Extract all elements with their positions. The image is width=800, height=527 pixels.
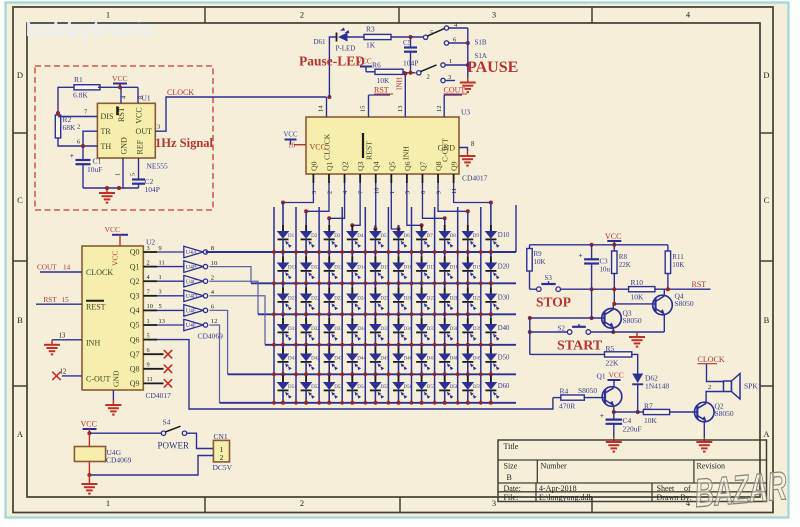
- connector CN1: [213, 440, 229, 462]
- svg-text:+: +: [600, 411, 604, 420]
- svg-text:R7: R7: [644, 402, 653, 411]
- junction LED bottom: [350, 312, 354, 316]
- svg-text:13: 13: [59, 333, 66, 340]
- LED D6: [398, 225, 400, 231]
- svg-text:S3: S3: [545, 274, 553, 282]
- junction LED bottom: [420, 372, 424, 376]
- LED D23: [328, 288, 330, 294]
- svg-text:6: 6: [420, 191, 427, 194]
- IC U3 CD4017 body: [306, 117, 459, 174]
- wire Q1 emitter down: [613, 406, 615, 413]
- svg-text:Title: Title: [504, 442, 519, 451]
- svg-text:S8050: S8050: [675, 299, 694, 308]
- wire LED column: [374, 239, 376, 252]
- ground: [703, 437, 705, 442]
- LED D46: [398, 348, 400, 354]
- svg-text:DC5V: DC5V: [213, 463, 233, 472]
- svg-text:D1: D1: [288, 234, 295, 239]
- wire C-OUT pin 12 of U2: [62, 375, 82, 377]
- LED D15: [374, 257, 376, 263]
- junction LED bottom: [466, 250, 470, 254]
- junction LED bottom: [489, 250, 493, 254]
- LED D34: [351, 318, 353, 324]
- svg-text:D45: D45: [380, 357, 389, 362]
- LED D21: [282, 288, 284, 294]
- svg-text:D38: D38: [450, 327, 459, 332]
- svg-text:GND: GND: [438, 144, 456, 153]
- wire inverter U4E output to LED row 5: [210, 310, 228, 374]
- wire LED column: [351, 302, 353, 314]
- wire LED column: [490, 390, 492, 402]
- svg-text:R3: R3: [366, 25, 375, 34]
- svg-text:D: D: [763, 70, 769, 80]
- wire LED column: [490, 362, 492, 374]
- wire TR pin: [83, 131, 97, 146]
- svg-text:Q6: Q6: [130, 335, 140, 344]
- wire LED column: [467, 239, 469, 252]
- svg-text:10K: 10K: [644, 416, 658, 425]
- svg-text:1: 1: [449, 58, 452, 65]
- dashed highlight box around 1Hz oscillator: [35, 66, 213, 210]
- svg-text:D48: D48: [450, 357, 459, 362]
- svg-text:5: 5: [404, 191, 411, 194]
- svg-text:15: 15: [62, 296, 70, 304]
- ground: [636, 332, 638, 337]
- wire matrix serpentine rail: [457, 207, 459, 403]
- svg-text:RST: RST: [44, 296, 58, 304]
- wire LED column: [305, 390, 307, 402]
- wire LED row bus 4: [265, 344, 516, 346]
- inverter U4D: [184, 290, 204, 302]
- junction fan: [397, 227, 401, 231]
- wire U3 output to matrix column: [352, 183, 360, 226]
- svg-text:U4F: U4F: [186, 323, 197, 329]
- svg-text:3: 3: [492, 10, 496, 20]
- svg-text:D57: D57: [427, 385, 436, 390]
- resistor R9: [529, 245, 531, 249]
- LED D10: [490, 225, 492, 231]
- svg-text:S8050: S8050: [715, 409, 734, 418]
- junction LED bottom: [350, 401, 354, 405]
- wire pin8 VCC: [137, 87, 139, 103]
- svg-text:D14: D14: [357, 266, 366, 271]
- LED D1: [282, 225, 284, 231]
- wire D61 to R3: [348, 36, 365, 38]
- svg-text:RST: RST: [374, 86, 389, 95]
- svg-text:10: 10: [147, 303, 153, 310]
- wire R9 to S3: [529, 271, 531, 289]
- wire LED column: [444, 239, 446, 252]
- wire LED column: [444, 390, 446, 402]
- junction LED bottom: [489, 343, 493, 347]
- svg-text:File:: File:: [504, 493, 519, 502]
- svg-text:1: 1: [106, 498, 110, 508]
- svg-text:VCC: VCC: [81, 420, 97, 429]
- junction INH: [403, 72, 407, 76]
- wire inverter U4A output to LED row 1: [206, 251, 516, 253]
- wire LED column: [305, 332, 307, 344]
- wire matrix serpentine rail: [480, 207, 482, 403]
- svg-text:12: 12: [436, 106, 443, 112]
- svg-text:Sheet: Sheet: [657, 484, 676, 493]
- svg-text:D18: D18: [450, 266, 459, 271]
- svg-text:10K: 10K: [672, 261, 684, 269]
- LED D28: [444, 288, 446, 294]
- junction LED bottom: [304, 401, 308, 405]
- no-connect X: [164, 379, 172, 387]
- wire LED column: [374, 271, 376, 283]
- svg-text:D: D: [17, 70, 23, 80]
- wire LED column: [398, 390, 400, 402]
- junction LED bottom: [304, 281, 308, 285]
- wire LED column: [351, 239, 353, 252]
- svg-text:D50: D50: [498, 355, 510, 362]
- svg-text:Q9: Q9: [450, 161, 459, 171]
- wire LED column: [282, 239, 284, 252]
- junction LED bottom: [443, 281, 447, 285]
- title block frame: [498, 440, 767, 502]
- svg-text:D13: D13: [334, 266, 343, 271]
- wire S1B pin6: [449, 42, 468, 44]
- wire matrix serpentine rail: [434, 207, 436, 403]
- svg-text:Q9: Q9: [130, 379, 140, 388]
- junction LED bottom: [397, 312, 401, 316]
- LED D43: [328, 348, 330, 354]
- resistor R8: [613, 245, 615, 251]
- capacitor C4: [613, 412, 615, 420]
- switch S2 START: [567, 330, 572, 335]
- svg-text:D52: D52: [311, 385, 320, 390]
- wire LED column: [282, 271, 284, 283]
- svg-text:+: +: [578, 251, 582, 260]
- wire R6 to INH net: [403, 71, 405, 73]
- ground: [88, 479, 90, 484]
- LED D42: [305, 348, 307, 354]
- no-connect X: [164, 365, 172, 373]
- wire REST pin 15: [368, 95, 370, 117]
- svg-text:D37: D37: [427, 327, 436, 332]
- capacitor C1: [82, 146, 84, 160]
- wire matrix serpentine rail: [341, 207, 343, 403]
- svg-text:PAUSE: PAUSE: [467, 59, 518, 76]
- wire C2 bottom: [138, 184, 140, 188]
- junction LED bottom: [489, 312, 493, 316]
- svg-text:Q2: Q2: [341, 161, 350, 171]
- IC U2 CD4017 body: [82, 246, 143, 390]
- svg-text:OUT: OUT: [136, 127, 153, 136]
- svg-text:U4D: U4D: [186, 294, 197, 300]
- svg-text:1Hz Signal: 1Hz Signal: [155, 136, 214, 150]
- svg-text:VCC: VCC: [310, 143, 326, 152]
- LED D31: [282, 318, 284, 324]
- junction LED bottom: [466, 343, 470, 347]
- wire LED column: [421, 362, 423, 374]
- svg-text:2: 2: [427, 74, 430, 81]
- wire LED column: [328, 362, 330, 374]
- wire matrix serpentine rail: [411, 207, 413, 403]
- resistor R7: [638, 411, 644, 413]
- svg-text:GND: GND: [112, 370, 121, 387]
- wire LED column: [328, 390, 330, 402]
- wire LED column: [467, 390, 469, 402]
- svg-text:D4: D4: [357, 234, 364, 239]
- wire S4 to CN1 pin1: [187, 433, 213, 448]
- svg-text:D7: D7: [427, 234, 434, 239]
- junction LED bottom: [373, 372, 377, 376]
- junction fan: [304, 209, 308, 213]
- svg-text:B: B: [764, 315, 770, 325]
- LED D50: [490, 348, 492, 354]
- svg-text:16: 16: [288, 142, 296, 150]
- wire LED column: [467, 332, 469, 344]
- junction LED bottom: [420, 250, 424, 254]
- svg-text:Pause-LED: Pause-LED: [299, 54, 365, 69]
- svg-text:3: 3: [311, 191, 318, 194]
- svg-text:14: 14: [63, 264, 71, 272]
- LED D14: [351, 257, 353, 263]
- wire Q3 base line: [530, 317, 605, 319]
- wire GND pin of U2: [112, 390, 114, 400]
- LED D5: [374, 225, 376, 231]
- wire REF pin 5 to C2: [138, 158, 140, 180]
- junction LED bottom: [327, 281, 331, 285]
- LED D59: [467, 376, 469, 382]
- svg-text:R4: R4: [560, 387, 569, 396]
- wire matrix serpentine rail: [295, 207, 297, 403]
- LED D30: [490, 288, 492, 294]
- junction LED bottom: [350, 250, 354, 254]
- svg-text:STOP: STOP: [536, 295, 571, 310]
- svg-text:CLOCK: CLOCK: [698, 355, 725, 364]
- junction LED bottom: [327, 250, 331, 254]
- wire LED column: [374, 332, 376, 344]
- svg-text:D46: D46: [404, 357, 413, 362]
- svg-text:S1B: S1B: [475, 39, 487, 47]
- junction pause net: [466, 41, 470, 45]
- junction LED bottom: [350, 281, 354, 285]
- svg-text:Q6: Q6: [403, 161, 412, 171]
- LED D40: [490, 318, 492, 324]
- svg-text:D30: D30: [498, 295, 510, 302]
- svg-text:11: 11: [451, 188, 458, 194]
- wire inverter U4D output to LED row 4: [210, 296, 266, 345]
- svg-text:CLOCK: CLOCK: [167, 88, 194, 97]
- wire LED column: [328, 332, 330, 344]
- svg-text:D47: D47: [427, 357, 436, 362]
- wire LED column: [467, 302, 469, 314]
- svg-text:104P: 104P: [403, 59, 418, 68]
- junction LED bottom: [489, 401, 493, 405]
- svg-text:2: 2: [211, 274, 214, 281]
- svg-text:D41: D41: [288, 357, 297, 362]
- svg-text:D29: D29: [473, 297, 482, 302]
- junction LED bottom: [420, 281, 424, 285]
- svg-text:INH: INH: [401, 146, 410, 160]
- resistor R4: [561, 395, 585, 400]
- svg-text:D34: D34: [357, 327, 366, 332]
- svg-text:9: 9: [147, 362, 150, 369]
- wire LED column: [421, 332, 423, 344]
- switch S1A: [417, 71, 421, 75]
- svg-text:Q5: Q5: [130, 321, 140, 330]
- LED D8: [444, 225, 446, 231]
- junction LED bottom: [373, 343, 377, 347]
- wire LED column: [328, 239, 330, 252]
- no-connect X: [52, 372, 60, 380]
- junction LED bottom: [466, 281, 470, 285]
- wire LED column: [444, 271, 446, 283]
- wire LED column: [305, 271, 307, 283]
- wire LED column: [490, 239, 492, 252]
- svg-text:Q1: Q1: [130, 262, 140, 271]
- svg-text:Q5: Q5: [387, 161, 396, 171]
- svg-text:8: 8: [471, 141, 475, 148]
- svg-text:D28: D28: [450, 297, 459, 302]
- wire LED row bus 2: [251, 282, 516, 284]
- svg-text:Q8: Q8: [434, 161, 443, 171]
- svg-text:10: 10: [373, 188, 380, 194]
- LED D39: [467, 318, 469, 324]
- svg-text:A: A: [763, 429, 770, 439]
- svg-text:R8: R8: [619, 253, 628, 261]
- wire INH pin 13 of U2: [52, 339, 82, 341]
- svg-text:D42: D42: [311, 357, 320, 362]
- wire R8 to Q3 collector: [613, 274, 615, 304]
- LED D26: [398, 288, 400, 294]
- wire inverter U4B output to LED row 2: [210, 267, 252, 284]
- wire Q2 emitter: [703, 422, 705, 437]
- svg-text:10u: 10u: [600, 266, 611, 274]
- junction LED bottom: [443, 312, 447, 316]
- LED D47: [421, 348, 423, 354]
- wire U4G to ground: [88, 462, 90, 480]
- junction LED bottom: [443, 343, 447, 347]
- wire LED column: [490, 332, 492, 344]
- ground: [51, 340, 53, 345]
- svg-text:INH: INH: [86, 339, 100, 348]
- wire LED column: [305, 239, 307, 252]
- svg-text:11: 11: [159, 259, 165, 266]
- svg-text:Size: Size: [504, 462, 518, 471]
- wire U3 output to matrix column: [374, 183, 376, 229]
- wire VCC rail: [530, 244, 668, 246]
- svg-text:Q7: Q7: [130, 350, 140, 359]
- wire LED column: [282, 332, 284, 344]
- LED D60: [490, 376, 492, 382]
- svg-text:D16: D16: [404, 266, 413, 271]
- svg-text:VCC: VCC: [284, 132, 298, 139]
- wire LED column: [421, 271, 423, 283]
- svg-text:VCC: VCC: [605, 232, 621, 241]
- svg-text:D53: D53: [334, 385, 343, 390]
- svg-text:B: B: [507, 473, 512, 482]
- svg-text:INH: INH: [396, 77, 404, 90]
- LED D12: [305, 257, 307, 263]
- wire LED column: [490, 271, 492, 283]
- junction fan: [489, 201, 493, 205]
- wire LED column: [305, 302, 307, 314]
- wire C-OUT pin 12: [443, 95, 445, 117]
- junction LED bottom: [327, 312, 331, 316]
- junction TR-TH-C1: [81, 144, 85, 148]
- wire GND pin 1: [122, 158, 124, 188]
- junction LED bottom: [327, 372, 331, 376]
- wire LED column: [398, 271, 400, 283]
- svg-text:4-Apr-2018: 4-Apr-2018: [539, 484, 577, 493]
- resistor R3: [364, 34, 391, 39]
- svg-text:D17: D17: [427, 266, 436, 271]
- junction LED bottom: [397, 250, 401, 254]
- svg-text:C5: C5: [403, 39, 412, 47]
- svg-text:1: 1: [389, 191, 396, 194]
- wire U3 output to matrix column: [306, 183, 329, 226]
- wire S1B pin4: [449, 27, 468, 29]
- wire LED column: [282, 362, 284, 374]
- wire Q3 emitter down: [612, 327, 614, 332]
- svg-text:DIS: DIS: [101, 112, 114, 121]
- svg-text:D44: D44: [357, 357, 366, 362]
- svg-text:Drawn By:: Drawn By:: [657, 493, 692, 502]
- svg-text:D39: D39: [473, 327, 482, 332]
- svg-text:15: 15: [360, 106, 367, 112]
- svg-text:13: 13: [397, 106, 404, 112]
- svg-text:8: 8: [138, 96, 145, 99]
- wire R11 down: [667, 274, 669, 289]
- svg-text:Q3: Q3: [356, 161, 365, 171]
- svg-text:REST: REST: [86, 303, 106, 312]
- wire matrix serpentine rail: [364, 207, 366, 403]
- svg-text:D35: D35: [380, 327, 389, 332]
- svg-text:VCC: VCC: [112, 74, 128, 83]
- ground: [106, 188, 108, 193]
- wire R1 left to node: [58, 87, 74, 115]
- svg-text:Q2: Q2: [130, 277, 140, 286]
- LED D52: [305, 376, 307, 382]
- LED D22: [305, 288, 307, 294]
- wire matrix serpentine rail: [387, 207, 389, 403]
- speaker SPK1: [724, 381, 732, 392]
- wire start line right: [591, 331, 614, 333]
- svg-text:11: 11: [147, 376, 153, 383]
- svg-text:R10: R10: [631, 278, 644, 287]
- junction LED bottom: [281, 312, 285, 316]
- wire LED column: [398, 302, 400, 314]
- svg-text:10K: 10K: [534, 258, 546, 266]
- svg-text:TR: TR: [101, 127, 112, 136]
- wire Q3 collector: [612, 304, 614, 310]
- svg-text:VCC: VCC: [135, 107, 144, 123]
- svg-text:22K: 22K: [619, 261, 631, 269]
- LED D18: [444, 257, 446, 263]
- svg-text:D40: D40: [498, 325, 510, 332]
- wire LED row bus 3: [258, 313, 516, 315]
- svg-text:12: 12: [211, 318, 218, 325]
- svg-text:D31: D31: [288, 327, 297, 332]
- svg-text:SPK1: SPK1: [744, 382, 762, 391]
- svg-text:of: of: [684, 484, 691, 493]
- inverter U4C: [184, 275, 204, 287]
- svg-text:13: 13: [159, 318, 165, 325]
- svg-text:D21: D21: [288, 297, 297, 302]
- svg-text:5: 5: [130, 173, 137, 176]
- junction LED bottom: [443, 250, 447, 254]
- wire CLOCK pin 14: [326, 97, 328, 117]
- wire R5 to D62: [632, 354, 638, 373]
- junction LED bottom: [466, 372, 470, 376]
- svg-text:68K: 68K: [63, 123, 77, 132]
- wire LED column: [444, 332, 446, 344]
- wire LED column: [374, 362, 376, 374]
